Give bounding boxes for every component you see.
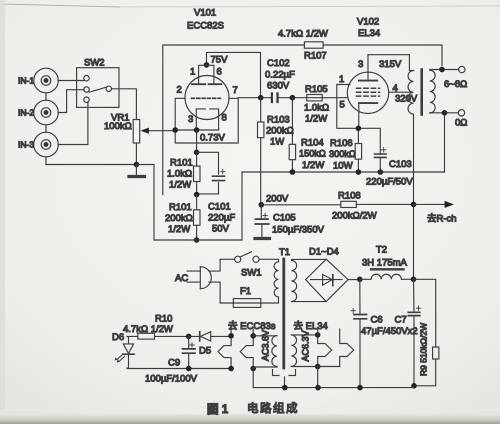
- svg-text:2: 2: [177, 85, 182, 96]
- transformer T1 primary winding: [274, 262, 278, 297]
- tube V101 cathodes (pins 3,8): [196, 109, 218, 130]
- node V102 cathode junction: [356, 126, 362, 132]
- wire R108 run: [261, 203, 413, 205]
- resistor R105: [307, 95, 322, 101]
- transformer T1 core: [282, 259, 285, 368]
- svg-text:C101: C101: [208, 202, 231, 213]
- svg-text:V102: V102: [357, 17, 379, 28]
- wire SW2 out to VR1 top: [111, 89, 136, 120]
- wire HV top to bridge: [292, 259, 327, 260]
- svg-text:50V: 50V: [212, 224, 230, 235]
- wire feedback top line (left box edge and top run to R107 and OPT): [163, 45, 442, 195]
- wire lower-left ground rail: [154, 172, 242, 240]
- wire SW1 to T1 primary: [259, 259, 278, 262]
- node winding-side top: [250, 333, 256, 339]
- resistor R101 1.0k: [194, 152, 201, 194]
- svg-text:R101: R101: [170, 158, 193, 169]
- svg-text:IN-3: IN-3: [18, 140, 34, 150]
- svg-text:8: 8: [222, 113, 227, 124]
- svg-text:C7: C7: [395, 315, 407, 326]
- tube V102 grids dashed: [357, 88, 380, 96]
- wire plug top to SW1: [209, 259, 235, 271]
- switch SW2: [77, 68, 119, 108]
- svg-text:C6: C6: [371, 315, 383, 326]
- wire IN-3 to SW2 contact 3: [58, 102, 88, 145]
- svg-text:100µF/100V: 100µF/100V: [145, 374, 198, 385]
- wire heater dc bottom run: [127, 368, 231, 370]
- svg-text:1: 1: [190, 67, 195, 78]
- capacitor C7: [408, 279, 420, 386]
- svg-text:SW2: SW2: [84, 58, 105, 69]
- resistor R108: [341, 201, 357, 207]
- svg-text:220µF: 220µF: [208, 213, 235, 224]
- svg-text:3H 175mA: 3H 175mA: [362, 258, 408, 269]
- svg-text:F1: F1: [240, 286, 251, 297]
- wire to R-ch arrow: [414, 201, 454, 207]
- node C7 bottom on rail: [411, 383, 417, 389]
- svg-text:200kΩ/2W: 200kΩ/2W: [332, 211, 377, 222]
- svg-text:AC3.6V: AC3.6V: [261, 330, 271, 361]
- svg-text:R108: R108: [338, 191, 361, 202]
- wire pin1 suppressor to cathode: [337, 85, 356, 129]
- svg-text:1/2W: 1/2W: [169, 180, 191, 191]
- svg-text:47µF/450Vx2: 47µF/450Vx2: [361, 326, 418, 337]
- choke T2: [361, 269, 413, 279]
- node choke out: [411, 277, 417, 283]
- heater center tap bracket: [273, 370, 296, 388]
- svg-text:R106: R106: [330, 138, 353, 149]
- svg-text:200V: 200V: [266, 194, 289, 205]
- svg-text:C105: C105: [273, 213, 296, 224]
- node heater drop on rail: [315, 385, 321, 391]
- tube V101 anodes (pins 1,6): [192, 65, 221, 84]
- transformer OPT primary winding: [408, 71, 413, 115]
- connector EL34 female: [318, 335, 332, 367]
- svg-text:V101: V101: [194, 8, 216, 19]
- svg-text:10W: 10W: [333, 161, 353, 172]
- tube V102 cathode bar: [359, 103, 377, 128]
- tube V101 envelope: [185, 76, 229, 120]
- svg-text:IN-1: IN-1: [18, 76, 34, 86]
- node VR1/ground bus junction: [134, 162, 140, 168]
- svg-text:6: 6: [217, 67, 222, 78]
- svg-text:T1: T1: [279, 247, 290, 258]
- wire bridge + to B+ node: [348, 279, 360, 281]
- svg-text:150µF/350V: 150µF/350V: [272, 225, 325, 236]
- resistor R104: [289, 98, 295, 172]
- node R108/B+ junction: [411, 202, 417, 208]
- wire signal line pin7 to V102 grid: [238, 97, 348, 99]
- svg-text:电路组成: 电路组成: [247, 401, 299, 415]
- svg-text:EL34: EL34: [358, 28, 380, 39]
- resistor R9: [414, 279, 439, 386]
- svg-text:R10: R10: [155, 314, 172, 325]
- node heater bottom left: [228, 366, 234, 372]
- svg-text:1: 1: [339, 74, 344, 85]
- node 200V: [259, 202, 265, 208]
- connector ECC83s male: [218, 329, 231, 369]
- capacitor C6: [351, 279, 367, 387]
- node B+ after bridge: [357, 277, 363, 283]
- wire 200V node riser: [260, 137, 262, 139]
- wire cathode bus y130: [175, 129, 218, 131]
- switch SW1: [235, 252, 260, 263]
- svg-text:75V: 75V: [211, 55, 229, 66]
- resistor R10: [127, 333, 189, 339]
- svg-text:IN-2: IN-2: [18, 108, 34, 118]
- node R101 top: [194, 150, 200, 156]
- svg-text:200kΩ: 200kΩ: [165, 213, 193, 224]
- svg-text:0.73V: 0.73V: [200, 133, 225, 144]
- svg-text:T2: T2: [376, 245, 387, 256]
- transformer OPT secondary winding: [430, 70, 435, 113]
- node 0 ohm tap: [442, 110, 448, 116]
- resistor R106: [355, 128, 361, 172]
- wire plate to OPT primary top: [368, 55, 414, 71]
- svg-text:220µF/50V: 220µF/50V: [366, 177, 413, 188]
- tube V101 grids dashed line: [192, 97, 221, 99]
- node EL34 heater top: [315, 332, 321, 338]
- node cathode join: [194, 127, 200, 133]
- AC plug P1: [187, 267, 211, 289]
- node C6 on rail: [357, 385, 363, 391]
- wire ground bus to lower-left rail: [136, 165, 154, 241]
- wire plug bottom to fuse: [209, 282, 233, 303]
- wire V101 grid loop rectangle: [175, 98, 238, 143]
- svg-text:去R-ch: 去R-ch: [427, 213, 457, 225]
- svg-text:6~8Ω: 6~8Ω: [444, 79, 467, 90]
- terminal 6-8 ohm: [459, 66, 465, 72]
- svg-text:300kΩ: 300kΩ: [329, 149, 356, 159]
- wire fuse to T1 primary bottom: [261, 297, 279, 303]
- svg-text:1W: 1W: [270, 137, 284, 148]
- jack IN-1: [34, 68, 59, 93]
- diode D5: [189, 332, 231, 341]
- node R106 bottom: [356, 169, 362, 175]
- wire PSU ground rail: [253, 387, 414, 389]
- node C9 bottom: [186, 366, 192, 372]
- connector EL34 male: [340, 329, 354, 367]
- node R102 bottom: [194, 237, 200, 243]
- wire IN-1 to SW2 contact 1: [58, 80, 84, 82]
- svg-text:3: 3: [188, 114, 193, 125]
- jack IN-3: [34, 132, 59, 157]
- svg-text:0Ω: 0Ω: [455, 118, 467, 129]
- transformer OPT core: [420, 70, 423, 115]
- wire 0 ohm tap down to ground rail: [443, 113, 446, 172]
- svg-text:3: 3: [358, 59, 363, 70]
- potentiometer VR1: [133, 120, 175, 165]
- resistor R103: [258, 98, 264, 205]
- wire 75V plate jog to C102 junction: [207, 52, 261, 97]
- diode D6 LED: [115, 336, 134, 368]
- winding AC3.6V: [272, 336, 277, 367]
- svg-text:R101: R101: [169, 202, 192, 213]
- svg-text:1/2W: 1/2W: [168, 224, 190, 235]
- wire OPT primary bottom to B+: [413, 114, 415, 279]
- resistor R107: [304, 42, 323, 48]
- svg-text:320V: 320V: [395, 94, 418, 105]
- node EL34 heater bottom: [315, 364, 321, 370]
- node VR1 wiper to grid: [172, 127, 178, 133]
- svg-text:R9 510kΩ/2W: R9 510kΩ/2W: [419, 323, 429, 376]
- svg-text:图 1: 图 1: [207, 402, 229, 416]
- wire secondary bottom tap to terminal: [430, 112, 459, 114]
- svg-text:7: 7: [233, 85, 238, 96]
- wire jack shields chain: [45, 93, 47, 165]
- jack IN-2: [34, 100, 59, 125]
- svg-text:1/2W: 1/2W: [302, 160, 324, 171]
- svg-text:150kΩ: 150kΩ: [299, 149, 326, 159]
- capacitor C105: [255, 205, 270, 239]
- ground symbol: [129, 165, 145, 177]
- capacitor C9: [183, 336, 196, 368]
- node C102/R103 junction: [258, 95, 264, 101]
- svg-text:4.7kΩ 1/2W: 4.7kΩ 1/2W: [278, 29, 328, 40]
- capacitor cathode bypass: [197, 152, 225, 194]
- wire IN-2 to SW2 contact 2: [58, 90, 84, 113]
- bridge rectifier D1-D4: [306, 259, 349, 301]
- svg-text:1.0kΩ: 1.0kΩ: [304, 103, 329, 114]
- terminal 0 ohm: [458, 110, 464, 116]
- connector ECC83s female: [240, 329, 253, 369]
- winding AC6.3V: [291, 335, 296, 367]
- node winding-side bottom: [250, 366, 256, 372]
- svg-text:R104: R104: [301, 138, 324, 149]
- wire pin4 screen to UL tap: [389, 91, 412, 93]
- wire connector to AC3.6V winding: [253, 336, 277, 367]
- svg-text:200kΩ: 200kΩ: [266, 126, 294, 137]
- svg-text:315V: 315V: [379, 59, 402, 70]
- wire EL34 heater stubs: [318, 330, 340, 367]
- capacitor C103: [358, 128, 386, 172]
- wire ground rail mid: [242, 171, 444, 173]
- wire HV bottom to bridge: [292, 301, 327, 303]
- wire secondary top tap to terminal: [430, 69, 459, 72]
- node 75V plate junction: [204, 62, 210, 68]
- node heater top left: [228, 333, 234, 339]
- svg-text:630V: 630V: [267, 81, 290, 92]
- tube V102 anode pin3: [359, 55, 377, 81]
- svg-text:SW1: SW1: [241, 268, 262, 279]
- wire winding AC6.3V to connector: [291, 335, 317, 367]
- svg-text:C103: C103: [389, 159, 412, 170]
- wire IN-3 shield to ground bus: [46, 164, 136, 166]
- svg-text:1/2W: 1/2W: [305, 114, 327, 125]
- svg-text:R107: R107: [304, 51, 327, 62]
- svg-text:ECC82S: ECC82S: [187, 21, 224, 32]
- svg-text:R105: R105: [305, 84, 328, 95]
- svg-text:5: 5: [340, 100, 345, 111]
- node feedback tap: [439, 67, 445, 73]
- svg-text:R103: R103: [267, 115, 290, 126]
- node C103 bottom: [378, 169, 384, 175]
- svg-text:去 EL34: 去 EL34: [294, 320, 328, 332]
- node C102/R104 junction: [290, 95, 296, 101]
- node R104 bottom: [290, 169, 296, 175]
- resistor R101(R102) 200k: [194, 195, 201, 241]
- node center tap on rail: [282, 385, 288, 391]
- svg-text:100kΩ: 100kΩ: [104, 121, 132, 132]
- svg-text:C102: C102: [267, 58, 290, 69]
- wire heater ground drop: [253, 367, 318, 388]
- tube V102 envelope: [347, 72, 388, 113]
- wire cathode down to R101: [196, 130, 198, 152]
- svg-text:D1~D4: D1~D4: [309, 247, 339, 258]
- transformer T1 HV secondary winding: [292, 260, 297, 301]
- svg-text:1.0kΩ: 1.0kΩ: [167, 169, 192, 180]
- node R10/D5/C9 junction: [186, 334, 192, 340]
- fuse F1: [233, 299, 260, 308]
- capacitor C102: [271, 92, 279, 103]
- svg-text:AC: AC: [175, 273, 188, 284]
- node R101 bottom / feedback in: [194, 192, 200, 198]
- svg-text:D5: D5: [199, 346, 211, 357]
- svg-text:C9: C9: [168, 358, 180, 369]
- svg-text:0.22µF: 0.22µF: [265, 70, 295, 81]
